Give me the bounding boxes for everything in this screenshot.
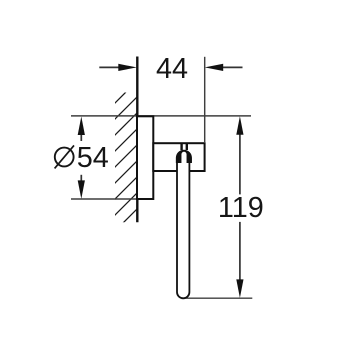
dim 119 down arrowhead [236, 279, 243, 298]
dim Ø54 up arrowhead [78, 117, 85, 136]
arm pivot knuckle [176, 150, 192, 163]
dim 44 left leader line [99, 66, 125, 68]
dim 44 left arrowhead [118, 64, 137, 71]
dim Ø54 down arrowhead [78, 180, 85, 199]
dim Ø54 lower dimension line [80, 175, 82, 185]
diameter symbol Ø [55, 145, 74, 168]
dim 119 up arrowhead [236, 116, 243, 135]
holder body [153, 143, 204, 171]
extension line bottom right (dim 119) [185, 297, 252, 299]
pivot pin [180, 144, 182, 150]
svg-text:44: 44 [156, 53, 188, 85]
wall plate (rosette, side view) [137, 116, 153, 199]
wall hatching [96, 92, 142, 250]
dim 44 right leader line [222, 66, 243, 68]
dim 119 upper dimension line [239, 130, 241, 194]
extension line right vertical (dim 44) [204, 57, 206, 142]
wall line [136, 57, 138, 223]
svg-text:119: 119 [218, 192, 264, 224]
dim Ø54 upper dimension line [80, 130, 82, 141]
dim 44 right arrowhead [205, 64, 224, 71]
extension line top (shared by dims Ø54 and 119) [71, 115, 251, 117]
holder arm (paper roll bar) [177, 158, 189, 298]
extension line bottom left (dim Ø54) [71, 198, 137, 200]
dim 119 lower dimension line [239, 222, 241, 283]
svg-text:54: 54 [77, 142, 109, 174]
